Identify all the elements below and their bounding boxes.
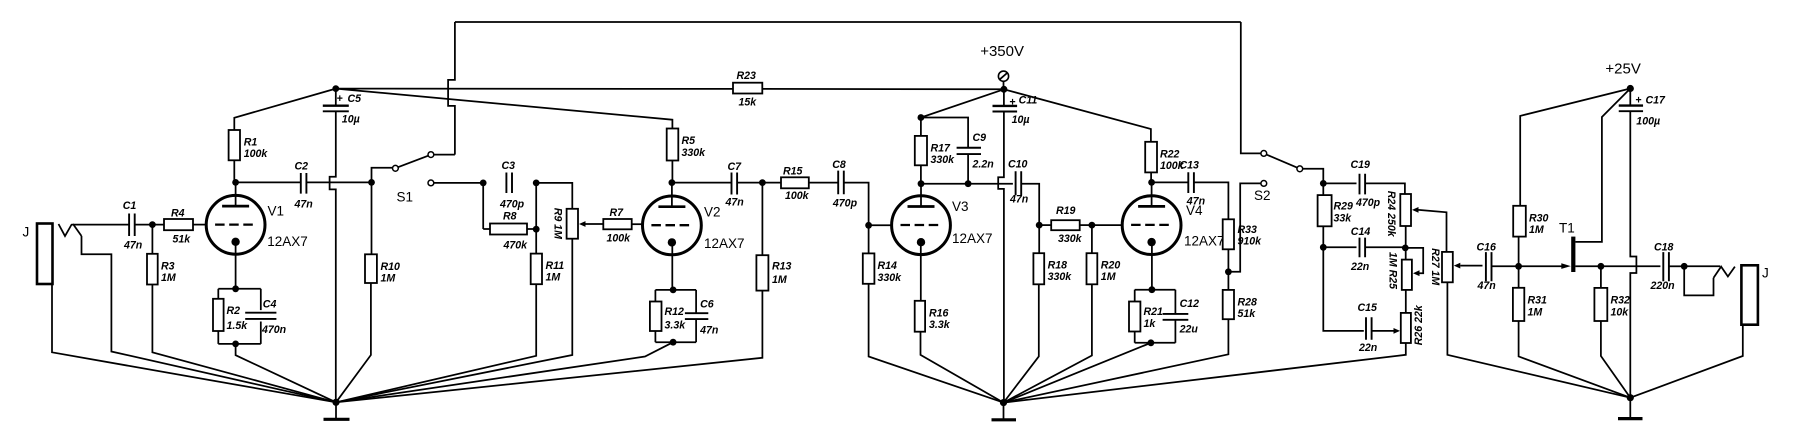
triode V1 12AX7 (206, 195, 265, 254)
node V3 plate (918, 180, 925, 187)
resistor R32 (1600, 266, 1602, 288)
svg-text:J: J (23, 225, 30, 240)
svg-text:10µ: 10µ (1012, 114, 1030, 126)
switch S1 (368, 179, 375, 186)
wire R7 to V2 grid (632, 223, 643, 225)
resistor R20 (1091, 225, 1093, 253)
resistor R29 (1322, 183, 1324, 195)
svg-text:10µ: 10µ (342, 114, 360, 126)
svg-text:R4: R4 (171, 208, 185, 220)
wire R4 to V1 grid (193, 224, 207, 226)
svg-text:R3: R3 (161, 260, 175, 272)
V3 cathode lead (920, 242, 922, 301)
svg-text:12AX7: 12AX7 (952, 231, 993, 246)
resistor R13 (761, 183, 763, 256)
resistor R23 (733, 83, 762, 94)
wire R3 to ground (152, 285, 336, 403)
svg-text:R15: R15 (783, 166, 804, 178)
wire R12/C6 to ground (336, 342, 673, 402)
svg-text:R1: R1 (244, 137, 258, 149)
svg-text:47n: 47n (699, 325, 719, 337)
wire C10 to R19 node (1021, 184, 1039, 225)
svg-text:910k: 910k (1238, 236, 1263, 248)
resistor R30 (1520, 89, 1630, 206)
svg-text:R16: R16 (929, 307, 949, 319)
svg-text:22n: 22n (1350, 261, 1370, 273)
ground left (332, 399, 339, 406)
svg-text:100k: 100k (785, 190, 810, 202)
svg-text:T1: T1 (1559, 221, 1575, 236)
V2 plate lead (671, 183, 673, 207)
svg-text:+: + (1635, 94, 1641, 106)
wire V3 plate to C10 (921, 183, 1013, 185)
V4 plate lead (1151, 182, 1153, 206)
svg-text:1M: 1M (1528, 307, 1544, 319)
resistor R31 (1518, 266, 1520, 288)
resistor R4 (164, 219, 193, 230)
node V4 plate (1148, 179, 1155, 186)
wire R33 node to S2 lower contact (1228, 183, 1261, 271)
svg-text:22n: 22n (1358, 342, 1378, 354)
wire V1 plate to C2 (236, 181, 301, 183)
node V1 plate (232, 179, 239, 186)
svg-text:330k: 330k (931, 154, 956, 166)
svg-text:S2: S2 (1254, 188, 1271, 203)
svg-text:R18: R18 (1048, 260, 1068, 272)
svg-text:100k: 100k (607, 232, 632, 244)
svg-text:C15: C15 (1358, 302, 1379, 314)
wire R14 to ground (869, 284, 1004, 403)
svg-text:R5: R5 (682, 135, 697, 147)
svg-text:R17: R17 (931, 142, 952, 154)
svg-text:R7: R7 (610, 207, 625, 219)
resistor R16 (915, 301, 925, 332)
potentiometer R9 (567, 209, 578, 239)
wire to T1 (1519, 265, 1564, 267)
svg-text:R8: R8 (503, 211, 517, 223)
svg-text:R19: R19 (1056, 205, 1076, 217)
svg-text:C2: C2 (295, 160, 309, 172)
svg-text:+25V: +25V (1605, 60, 1640, 77)
capacitor C14 (1323, 246, 1356, 248)
svg-text:47n: 47n (1477, 280, 1497, 292)
svg-text:3.3k: 3.3k (665, 320, 687, 332)
node C5 top (332, 85, 339, 92)
capacitor C17 electrolytic (1629, 89, 1631, 106)
wire R32 to ground (1601, 321, 1630, 398)
resistor R15 (762, 182, 781, 184)
wire R16 to ground (921, 332, 1004, 403)
svg-text:C17: C17 (1646, 95, 1667, 107)
jack tip contact (59, 224, 72, 236)
svg-text:C6: C6 (700, 299, 714, 311)
svg-text:10k: 10k (1611, 307, 1630, 319)
switch S2 (1241, 22, 1261, 153)
capacitor C1 (129, 214, 135, 237)
wire R13 to ground (336, 291, 762, 403)
svg-text:C13: C13 (1180, 160, 1200, 172)
wire R27 to right ground (1447, 282, 1630, 397)
wire C2 to S1 node (306, 181, 371, 183)
resistor R17 (921, 89, 1004, 136)
svg-text:1M: 1M (381, 272, 397, 284)
capacitor C13 (1152, 181, 1189, 183)
svg-text:220n: 220n (1650, 280, 1676, 292)
svg-text:C4: C4 (263, 298, 277, 310)
svg-text:C5: C5 (348, 93, 363, 105)
svg-text:C16: C16 (1477, 242, 1497, 254)
svg-text:2.2n: 2.2n (972, 159, 995, 171)
svg-text:C1: C1 (123, 200, 137, 212)
wire R20 to ground (1004, 284, 1092, 402)
wire R25 wiper loop (1405, 248, 1423, 273)
resistor R2 (217, 289, 219, 299)
svg-text:1M: 1M (772, 274, 788, 286)
svg-text:R22: R22 (1160, 148, 1180, 160)
capacitor C8 (838, 171, 844, 195)
wire R24 wiper to R27 (1419, 210, 1447, 252)
svg-text:330k: 330k (682, 147, 707, 159)
wire C5 to ground with hop (330, 111, 336, 402)
cathode network R12 C6 (670, 287, 677, 294)
capacitor C7 (672, 182, 732, 184)
node cathode bottom (232, 341, 239, 348)
node R24/R25/C14 (1405, 226, 1407, 260)
svg-text:C12: C12 (1180, 298, 1200, 310)
V4 cathode lead (1151, 242, 1153, 290)
resistor R22 (1004, 89, 1151, 142)
resistor R19 (1039, 224, 1051, 226)
svg-text:R12: R12 (665, 306, 685, 318)
wire C16 to R30 node (1492, 265, 1519, 267)
wire S1 to top rail with hop (448, 22, 455, 155)
svg-text:R13: R13 (772, 260, 792, 272)
svg-text:C10: C10 (1008, 159, 1028, 171)
wire R19 to V4 grid (1092, 224, 1122, 226)
svg-text:+350V: +350V (980, 43, 1024, 60)
cathode network R21 C12 (1149, 286, 1156, 293)
svg-text:330k: 330k (878, 272, 903, 284)
node C7/R15/R13 (759, 179, 766, 186)
svg-text:12AX7: 12AX7 (704, 236, 745, 251)
svg-text:33k: 33k (1334, 212, 1353, 224)
svg-text:1M: 1M (1529, 224, 1545, 236)
svg-text:V1: V1 (268, 204, 285, 219)
wire C8 to V3 grid (844, 183, 869, 226)
svg-text:12AX7: 12AX7 (1184, 234, 1225, 249)
wire C3 node to R9 (536, 183, 572, 209)
svg-text:R14: R14 (878, 260, 898, 272)
resistor R5 (336, 89, 673, 129)
wire R28 to ground (1004, 319, 1229, 402)
wire C11 to ground with hop (998, 112, 1004, 403)
svg-text:47n: 47n (1009, 194, 1029, 206)
output jack contact (1714, 267, 1735, 278)
wire R26 to ground (1004, 343, 1406, 403)
resistor R1 (234, 89, 335, 130)
resistor R7 (603, 219, 631, 229)
svg-text:470p: 470p (832, 197, 858, 209)
triode V4 12AX7 (1122, 196, 1181, 255)
potentiometer R24 (1400, 194, 1411, 226)
wire R2/C4 to ground (236, 344, 336, 402)
svg-text:R23: R23 (737, 70, 757, 82)
node V1 cathode top (232, 285, 239, 292)
svg-text:1M: 1M (546, 272, 562, 284)
svg-text:51k: 51k (173, 234, 192, 246)
svg-text:470k: 470k (503, 239, 529, 251)
capacitor C15 (1366, 317, 1372, 340)
top rail wire (455, 21, 1241, 23)
wire R10 to ground (336, 283, 371, 402)
svg-text:22u: 22u (1179, 324, 1199, 336)
svg-text:470n: 470n (261, 324, 287, 336)
wire jack sleeve to ground (52, 284, 336, 402)
svg-text:12AX7: 12AX7 (267, 234, 308, 249)
capacitor C18 (1663, 252, 1669, 281)
svg-text:470p: 470p (499, 198, 525, 210)
svg-text:R24 250k: R24 250k (1385, 191, 1397, 238)
wire R21/C12 to ground (1004, 343, 1151, 403)
capacitor C5 electrolytic (335, 89, 337, 106)
svg-text:C7: C7 (728, 161, 743, 173)
triode V3 12AX7 (892, 196, 951, 255)
svg-text:J: J (1762, 266, 1769, 281)
svg-text:R31: R31 (1528, 295, 1548, 307)
resistor R21 (1134, 290, 1136, 302)
V1 cathode lead (235, 242, 237, 289)
wire C1 to node (135, 224, 164, 226)
wire C3 node down to R11 (535, 183, 537, 254)
node C1/R4/R3 (149, 221, 156, 228)
wire R29 down to C15 (1323, 247, 1364, 331)
wire R27 wiper to C16 (1460, 265, 1482, 267)
svg-text:+: + (337, 93, 343, 105)
wire C17 to ground with hop (1630, 111, 1636, 398)
potentiometer R26 (1405, 290, 1407, 313)
output jack J (1741, 265, 1758, 324)
resistor R28 (1227, 272, 1229, 290)
triode V2 12AX7 (643, 196, 702, 255)
svg-text:V2: V2 (704, 205, 721, 220)
wire jack to ground (1630, 325, 1743, 398)
svg-text:C19: C19 (1351, 159, 1371, 171)
potentiometer R25 (1402, 260, 1412, 290)
svg-text:15k: 15k (739, 97, 758, 109)
svg-text:47n: 47n (725, 197, 745, 209)
resistor R12 (654, 290, 656, 302)
svg-text:R11: R11 (546, 260, 565, 272)
wire C15 to R26 wiper (1372, 330, 1394, 332)
wire R9 to ground (336, 239, 572, 403)
resistor R10 (371, 182, 373, 254)
wire T1 to R32 node (1575, 265, 1601, 267)
wire R31 to ground (1519, 321, 1631, 398)
wire R11 to ground (336, 284, 536, 402)
svg-text:R32: R32 (1611, 295, 1631, 307)
capacitor C3 (480, 180, 487, 187)
svg-text:R9 1M: R9 1M (552, 208, 564, 240)
svg-text:R2: R2 (227, 305, 241, 317)
resistor R8 (482, 183, 484, 229)
svg-text:47n: 47n (123, 240, 143, 252)
svg-text:1M: 1M (1101, 271, 1117, 283)
svg-text:R27 1M: R27 1M (1429, 248, 1441, 286)
capacitor C2 (301, 173, 307, 194)
svg-text:C8: C8 (832, 159, 846, 171)
svg-text:S1: S1 (397, 190, 414, 205)
input jack J (37, 224, 53, 285)
resistor R33 (1223, 219, 1234, 249)
transducer T1 (1561, 263, 1571, 269)
svg-text:C3: C3 (502, 160, 516, 172)
svg-text:R28: R28 (1238, 296, 1258, 308)
wire jack contact to ground drop (82, 236, 337, 402)
wire C13 to R33 (1194, 182, 1228, 219)
capacitor C9 (921, 118, 968, 148)
resistor R3 (151, 225, 153, 254)
V3 plate lead (920, 184, 922, 207)
ground center (1000, 399, 1007, 406)
svg-text:330k: 330k (1058, 233, 1083, 245)
svg-text:100µ: 100µ (1636, 116, 1660, 128)
wire R18 to ground (1004, 284, 1039, 402)
resistor R18 (1038, 225, 1040, 253)
svg-text:V3: V3 (952, 199, 969, 214)
wire C5 node to R23 to +350V (336, 88, 733, 90)
svg-text:C9: C9 (973, 132, 987, 144)
capacitor C12 (1174, 290, 1176, 314)
wire R32 node to C18 (1601, 265, 1661, 267)
svg-text:C14: C14 (1351, 226, 1371, 238)
svg-text:+: + (1009, 96, 1015, 108)
V1 plate lead (235, 182, 237, 206)
capacitor C16 (1486, 252, 1492, 281)
svg-text:51k: 51k (1238, 308, 1257, 320)
svg-text:1M: 1M (161, 272, 177, 284)
wire C19 to R24 (1365, 183, 1405, 194)
svg-text:R10: R10 (381, 261, 401, 273)
svg-text:1M R25: 1M R25 (1387, 252, 1399, 290)
ground right (1627, 394, 1634, 401)
potentiometer R27 (1442, 252, 1453, 282)
svg-text:330k: 330k (1048, 271, 1073, 283)
svg-text:100k: 100k (244, 148, 269, 160)
svg-text:1k: 1k (1144, 318, 1157, 330)
node V2 plate (669, 179, 676, 186)
svg-text:3.3k: 3.3k (929, 319, 951, 331)
svg-text:R30: R30 (1529, 212, 1549, 224)
wire T1 top to +25V (1575, 89, 1630, 242)
svg-text:C18: C18 (1654, 242, 1674, 254)
svg-text:R26 22k: R26 22k (1413, 304, 1425, 345)
capacitor C4 (260, 289, 262, 310)
svg-text:47n: 47n (294, 199, 314, 211)
svg-text:470p: 470p (1355, 197, 1381, 209)
capacitor C11 electrolytic (1003, 89, 1005, 106)
wire tip to C1 (72, 224, 129, 226)
capacitor C19 (1323, 182, 1356, 184)
svg-text:R21: R21 (1144, 306, 1164, 318)
capacitor C10 (1016, 171, 1022, 195)
svg-text:R29: R29 (1334, 200, 1354, 212)
svg-text:47n: 47n (1186, 196, 1206, 208)
capacitor C6 (695, 290, 697, 313)
svg-text:1.5k: 1.5k (227, 320, 249, 332)
resistor R11 (531, 254, 542, 285)
wire C18 to output jack (1669, 265, 1684, 267)
svg-text:R20: R20 (1101, 260, 1121, 272)
V2 cathode lead (671, 242, 673, 290)
resistor R14 (868, 225, 870, 253)
